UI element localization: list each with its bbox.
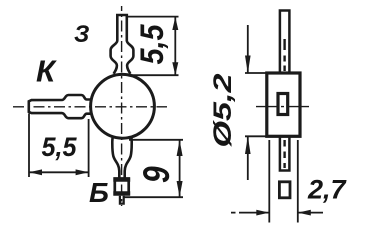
dimension 5,5 (top): extension lines [127, 17, 179, 76]
dimension 5,5 (top): arrowheads [172, 17, 178, 30]
dimension 2,7: dimension line right with arrow [298, 212, 323, 214]
lead Б (bottom lead, front view) bulge [112, 137, 131, 179]
transistor body circle (front view) [91, 74, 155, 138]
side view: bottom lead upper section [280, 136, 290, 170]
vertical centerline (front view) [121, 6, 123, 206]
dimension Ø5,2: leader lines with arrows [247, 25, 249, 180]
lead К (left lead, front view) [29, 95, 92, 118]
svg-text:9: 9 [137, 166, 177, 183]
lead Б flattened section (front view) [115, 179, 129, 193]
side view: body rectangle [267, 73, 300, 136]
dimension 9: extension lines [124, 140, 183, 197]
dimension 2,7: dimension line left with arrow [231, 212, 269, 214]
horizontal centerline (front view) [13, 106, 167, 108]
lead Б tip rod (front view) [120, 196, 124, 204]
side view: top lead [280, 11, 290, 74]
dimension 5,5 (left lead): extension lines [29, 114, 89, 178]
svg-text:Ø5,2: Ø5,2 [209, 73, 237, 147]
dimension 9: arrowheads [177, 140, 183, 156]
svg-text:Б: Б [89, 177, 109, 208]
dimension 5,5 (left lead): arrowheads [29, 169, 42, 175]
side view: bottom lead tip rectangle [279, 182, 290, 198]
dimension Ø5,2: extension lines [245, 73, 267, 136]
side view: top lead hidden line [283, 39, 285, 71]
side view: horizontal centerline [256, 106, 310, 108]
lead З (top lead, front view) [111, 15, 134, 74]
side view: inner crystal rectangle [278, 94, 288, 115]
dimension 5,5 (top): dimension line [174, 17, 176, 76]
dimension 2,7: extension lines [269, 140, 298, 223]
dimension 5,5 (left lead): dimension line [29, 171, 89, 173]
svg-text:2,7: 2,7 [307, 175, 348, 205]
svg-text:5,5: 5,5 [135, 23, 170, 64]
svg-text:5,5: 5,5 [42, 132, 78, 162]
svg-text:З: З [74, 21, 89, 48]
svg-text:К: К [36, 54, 57, 89]
side view: bottom lead hidden line [283, 140, 285, 168]
dimension 9: dimension line [179, 140, 181, 197]
